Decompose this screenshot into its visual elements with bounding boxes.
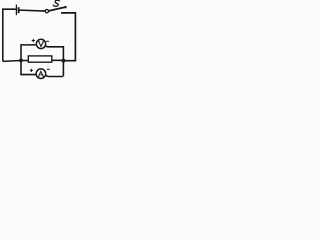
wire ammeter-left lead: [20, 74, 36, 76]
voltmeter letter V: [38, 41, 44, 46]
resistor box: [28, 56, 52, 62]
wire inner-left vertical + voltmeter-left lead: [21, 45, 36, 75]
switch S blade: [48, 7, 65, 11]
junction dot right node: [61, 59, 65, 63]
wire left main + top-left segment: [3, 9, 16, 61]
battery short plate: [18, 7, 20, 13]
wire voltmeter-right lead + inner-right vertical: [45, 46, 64, 77]
wire battery to switch: [20, 9, 46, 12]
switch S blade tip dot: [64, 6, 67, 8]
wire switch right contact + right main wire + junction arm: [61, 13, 75, 61]
wire ammeter-right lead: [45, 75, 63, 76]
battery long plate: [15, 5, 17, 16]
voltmeter minus terminal: [46, 40, 49, 42]
voltmeter plus terminal: [32, 39, 35, 42]
voltmeter circle: [36, 39, 45, 48]
switch S pivot circle: [45, 10, 48, 13]
ammeter circle: [36, 69, 46, 79]
label S: [53, 0, 60, 6]
ammeter letter A: [38, 71, 44, 76]
wire resistor row right to junction: [52, 59, 64, 61]
junction dot left node: [19, 59, 23, 63]
ammeter minus terminal: [47, 68, 50, 70]
ammeter plus terminal: [30, 69, 33, 72]
wire resistor row left: [3, 60, 29, 63]
